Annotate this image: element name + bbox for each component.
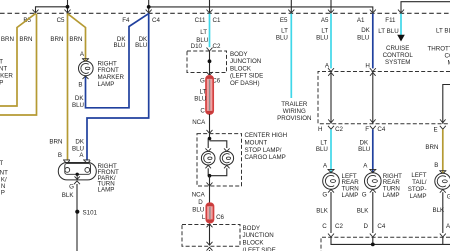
wire DK BLU F4 branch xyxy=(86,14,149,108)
svg-text:A: A xyxy=(79,152,84,159)
connector arrow left stop lamp top xyxy=(205,148,211,151)
connector arrow marker lamp top xyxy=(83,59,89,62)
wire BRN right branch of C5 to marker lamp xyxy=(68,14,86,62)
svg-text:D10: D10 xyxy=(191,43,203,50)
svg-text:BLU: BLU xyxy=(135,42,147,49)
wire trailer box pin A-H column xyxy=(330,72,332,124)
wire LT BLU F11 to cruise xyxy=(400,14,402,36)
svg-text:G: G xyxy=(322,192,327,199)
svg-text:C1: C1 xyxy=(213,17,221,24)
fuse element upper (red) xyxy=(206,76,213,114)
svg-text:MOUNT: MOUNT xyxy=(245,140,268,147)
connector arrow C5 xyxy=(65,10,71,13)
wire from left stop lamp bottom xyxy=(208,168,209,175)
lamp left rear turn xyxy=(323,173,340,190)
svg-text:LT: LT xyxy=(281,27,288,34)
wire bus1 to B5 xyxy=(36,7,68,13)
wire DK BLU A1 xyxy=(372,14,374,69)
wire top feeder stub E5 xyxy=(290,0,292,12)
wire BLK park/turn ground xyxy=(76,184,78,251)
connector arrow right stop lamp bottom xyxy=(224,165,230,168)
lamp right front marker: socket tick xyxy=(82,58,89,60)
svg-text:BLU: BLU xyxy=(192,206,204,213)
wire BRN main B5 xyxy=(0,14,37,115)
wire bus2 to A1 xyxy=(149,7,373,12)
svg-text:BRN: BRN xyxy=(1,36,14,43)
svg-text:BLK: BLK xyxy=(62,192,75,199)
node dot stop lamp box bottom xyxy=(208,174,212,178)
svg-text:A5: A5 xyxy=(321,17,329,24)
wire right rear into ground bus xyxy=(372,237,374,244)
svg-text:CONTROL: CONTROL xyxy=(383,52,414,59)
junction block 2 dashed box xyxy=(182,225,240,247)
svg-text:C6: C6 xyxy=(216,214,224,221)
wire BLK left rear ground xyxy=(330,192,332,233)
svg-text:C: C xyxy=(200,107,205,114)
connector arrow marker lamp bottom xyxy=(83,76,89,79)
wire BRN to left tail lamp xyxy=(442,129,444,173)
connector arrow left stop lamp bottom xyxy=(205,165,211,168)
connector arrow exiting stop lamp box xyxy=(207,183,213,186)
svg-text:F: F xyxy=(365,126,369,133)
connector arrow D into bottom box xyxy=(370,234,376,237)
connector arrow C into bottom box xyxy=(328,234,334,237)
wire stop lamp box to fuse2 xyxy=(209,186,211,203)
svg-text:BRN: BRN xyxy=(69,36,82,43)
wire LT BLU E5 trailer feed xyxy=(290,14,292,98)
svg-text:B: B xyxy=(434,162,438,169)
connector arrow F4/C4 xyxy=(146,10,152,13)
svg-text:PROVISION: PROVISION xyxy=(277,115,311,122)
connector arrow right stop lamp top xyxy=(224,148,230,151)
svg-text:SYSTEM: SYSTEM xyxy=(385,59,410,66)
dashed harness line top xyxy=(0,12,450,14)
svg-text:BLU: BLU xyxy=(194,96,206,103)
svg-text:A: A xyxy=(325,63,330,70)
svg-text:A1: A1 xyxy=(357,17,365,24)
wire LT BLU C1 xyxy=(209,14,211,48)
svg-text:DK: DK xyxy=(75,95,84,102)
connector arrow A1 xyxy=(370,10,376,13)
svg-text:LT BLU: LT BLU xyxy=(436,28,450,35)
svg-text:C11: C11 xyxy=(195,17,206,24)
connector arrow bottom of junction block 2 xyxy=(207,242,213,245)
svg-text:LAMP: LAMP xyxy=(342,192,359,199)
svg-text:BLOCK: BLOCK xyxy=(230,65,252,72)
wire park/turn dot to shell xyxy=(76,174,78,180)
wire LT BLU to left rear turn lamp xyxy=(330,129,332,172)
svg-text:CONTROL: CONTROL xyxy=(445,53,450,60)
svg-text:P: P xyxy=(0,80,3,87)
svg-text:BODY: BODY xyxy=(243,225,261,232)
rear ground dashed box xyxy=(321,237,450,251)
park/turn filament right xyxy=(85,168,90,173)
svg-text:BLU: BLU xyxy=(316,34,328,41)
wire from right stop lamp bottom xyxy=(210,168,227,175)
svg-text:OF DASH): OF DASH) xyxy=(230,80,260,87)
svg-text:C2: C2 xyxy=(335,223,343,230)
svg-text:STOP-: STOP- xyxy=(408,186,427,193)
svg-text:STOP LAMP/: STOP LAMP/ xyxy=(245,147,282,154)
svg-text:NCA: NCA xyxy=(192,191,206,198)
svg-text:LT: LT xyxy=(200,29,207,36)
svg-text:BODY: BODY xyxy=(230,51,248,58)
connector arrow left rear lamp bottom xyxy=(328,189,334,192)
arrowhead cruise control feed xyxy=(397,35,405,42)
wire BRN left branch of B5 xyxy=(0,14,36,106)
svg-text:G: G xyxy=(200,77,205,84)
wire top feeder stub A5 xyxy=(330,0,332,12)
svg-text:WIRING: WIRING xyxy=(283,108,306,115)
svg-text:LT: LT xyxy=(200,89,207,96)
connector arrow D10/C2 xyxy=(207,48,213,51)
lamp right front park/turn: socket ticks xyxy=(63,159,90,161)
svg-text:BLK: BLK xyxy=(432,207,445,214)
svg-text:BLK: BLK xyxy=(357,207,370,214)
connector arrow below junction block 2 xyxy=(207,247,213,250)
wire inside junction block 1 xyxy=(209,51,211,75)
wire stub bottom center xyxy=(209,250,211,251)
arrows inside trailer box left xyxy=(328,72,334,122)
trailer wiring dashed box xyxy=(318,72,450,124)
wire trailer box pin H-F column xyxy=(372,72,374,124)
node dot park/turn xyxy=(76,173,79,176)
svg-text:G: G xyxy=(362,192,367,199)
svg-text:L: L xyxy=(202,214,206,221)
svg-text:F4: F4 xyxy=(122,17,130,24)
node junction dot bus2/F4 xyxy=(147,5,151,9)
park/turn filament left xyxy=(65,168,70,173)
svg-text:B: B xyxy=(58,152,62,159)
svg-text:LAMP: LAMP xyxy=(98,186,115,193)
svg-text:LAMP: LAMP xyxy=(98,81,115,88)
wire DK BLU to right rear turn lamp xyxy=(372,129,374,172)
svg-text:A: A xyxy=(363,163,368,170)
svg-text:DK: DK xyxy=(75,138,84,145)
svg-text:BLU: BLU xyxy=(72,102,84,109)
svg-text:C5: C5 xyxy=(57,17,65,24)
node splice S101 xyxy=(75,210,79,214)
connector arrow tail lamp bottom xyxy=(440,190,446,193)
connector arrow below trailer box F/C4 xyxy=(370,126,376,129)
wire F11 bracket from right edge xyxy=(401,2,450,13)
node junction dot bus1/C5 xyxy=(66,5,70,9)
wire inside junction block 2 xyxy=(209,225,211,246)
svg-text:LAMP: LAMP xyxy=(410,193,427,200)
svg-text:D: D xyxy=(364,223,369,230)
connector arrow below trailer box H/C2 xyxy=(328,126,334,129)
connector arrow F11 xyxy=(398,10,404,13)
lamp right rear turn xyxy=(365,173,382,190)
svg-text:NT: NT xyxy=(0,66,7,73)
svg-text:G: G xyxy=(69,183,74,190)
svg-text:C2: C2 xyxy=(335,126,343,133)
connector arrow into junction block 2 xyxy=(207,224,213,227)
svg-text:(LEFT SIDE: (LEFT SIDE xyxy=(230,73,263,80)
lamp right rear turn: socket tick + arrow xyxy=(369,169,376,172)
svg-text:C2: C2 xyxy=(213,43,221,50)
svg-text:LT BLU: LT BLU xyxy=(378,28,398,35)
svg-text:LT: LT xyxy=(321,27,328,34)
svg-text:BLU: BLU xyxy=(357,34,369,41)
connector arrow right rear lamp bottom xyxy=(370,189,376,192)
svg-text:CARGO LAMP: CARGO LAMP xyxy=(245,154,286,161)
svg-text:C4: C4 xyxy=(377,223,385,230)
junction block 1 dashed box xyxy=(187,51,227,73)
svg-text:TRAILER: TRAILER xyxy=(281,101,308,108)
connector arrow into stop lamp box xyxy=(207,130,213,133)
wire to right stop lamp xyxy=(210,141,227,148)
lamp stop/cargo left xyxy=(201,151,215,165)
svg-text:P: P xyxy=(1,190,5,197)
svg-text:BLK: BLK xyxy=(316,207,329,214)
svg-text:E5: E5 xyxy=(280,17,288,24)
wire BLK tail lamp ground xyxy=(442,192,444,233)
lamp right front park/turn body xyxy=(58,163,96,180)
svg-text:THROTTLE: THROTTLE xyxy=(428,45,450,52)
wire LT BLU A5 xyxy=(330,14,332,69)
connector arrow A into bottom box xyxy=(440,234,446,237)
lamp left rear turn: socket tick + arrow xyxy=(327,169,334,172)
arrows inside trailer box right xyxy=(370,72,376,122)
svg-text:T: T xyxy=(0,160,3,167)
wire BRN main C5 to park/turn lamp xyxy=(67,14,69,161)
svg-text:TAIL/: TAIL/ xyxy=(412,179,427,186)
svg-text:JUNCTION: JUNCTION xyxy=(230,58,261,65)
connector arrow exiting junction block 1 xyxy=(207,72,213,75)
lamp left tail/stop xyxy=(435,173,450,189)
node dot ground bus xyxy=(371,243,375,247)
connector arrow park/turn ground xyxy=(74,181,80,184)
svg-text:C4: C4 xyxy=(377,126,385,133)
svg-text:LAMP: LAMP xyxy=(383,192,400,199)
svg-text:E: E xyxy=(433,127,437,134)
wire top feeder stub C11 xyxy=(209,0,211,12)
svg-text:A: A xyxy=(446,223,450,230)
svg-text:S101: S101 xyxy=(83,209,98,216)
wire DK BLU C4 main xyxy=(87,14,149,161)
wire exiting stop lamp box xyxy=(209,176,211,186)
connector arrow E5 xyxy=(288,10,294,13)
svg-text:BRN: BRN xyxy=(425,144,438,151)
wire tail lamp into ground bus xyxy=(442,237,444,244)
svg-text:JUNCTION: JUNCTION xyxy=(243,232,274,239)
connector arrow below trailer box E xyxy=(440,126,446,129)
svg-text:NCA: NCA xyxy=(192,119,206,126)
fuse element lower (red) xyxy=(206,203,213,222)
svg-text:BLU: BLU xyxy=(276,34,288,41)
connector arrow A into trailer box xyxy=(328,68,334,71)
stop/cargo lamp dashed box xyxy=(197,134,242,186)
svg-text:CRUISE: CRUISE xyxy=(386,45,409,52)
svg-text:BLU: BLU xyxy=(113,42,125,49)
wire fuse1 to stop lamp box xyxy=(209,114,211,133)
svg-text:A: A xyxy=(80,51,85,58)
wire top feeder stub F4/C4 xyxy=(148,0,150,12)
arrow inside trailer box at E xyxy=(440,119,446,122)
wire ground bus inside rear box xyxy=(331,237,450,244)
park/turn inner contact box xyxy=(65,164,91,175)
svg-text:DK: DK xyxy=(361,27,370,34)
connector arrow A5 xyxy=(328,10,334,13)
svg-text:(LEFT SIDE: (LEFT SIDE xyxy=(243,247,276,251)
wire top feeder stub C5 xyxy=(67,0,69,12)
svg-text:BLU: BLU xyxy=(358,146,370,153)
lamp stop/cargo right xyxy=(220,151,234,165)
svg-text:BRN: BRN xyxy=(49,138,62,145)
connector arrow C11/C1 xyxy=(207,10,213,13)
connector arrows park/turn top xyxy=(64,160,91,163)
svg-text:H: H xyxy=(365,63,369,70)
node dot inside junction block 1 xyxy=(208,59,212,63)
svg-text:CENTER HIGH: CENTER HIGH xyxy=(245,132,288,139)
wire trailer box L-branch to tail lamp xyxy=(443,85,450,124)
svg-text:BLU: BLU xyxy=(316,146,328,153)
svg-text:A: A xyxy=(323,163,328,170)
node dot stop lamp box xyxy=(208,137,212,141)
svg-text:LEFT: LEFT xyxy=(411,172,426,179)
wire to left stop lamp xyxy=(207,139,209,148)
lamp left tail/stop: socket tick + arrow xyxy=(439,171,446,174)
svg-text:B: B xyxy=(78,81,82,88)
svg-text:C: C xyxy=(322,223,327,230)
wire BLK right rear ground xyxy=(372,192,374,233)
connector arrow park/turn inside xyxy=(75,176,80,179)
svg-text:BRN: BRN xyxy=(50,36,63,43)
svg-text:D: D xyxy=(198,199,203,206)
connector arrow H into trailer box xyxy=(370,68,376,71)
wire inside stop lamp box top xyxy=(209,134,211,139)
lamp right front marker xyxy=(79,61,94,76)
svg-text:F11: F11 xyxy=(385,17,396,24)
svg-text:C4: C4 xyxy=(152,17,160,24)
svg-text:BLOCK: BLOCK xyxy=(243,240,265,247)
svg-text:BRN: BRN xyxy=(19,36,32,43)
svg-text:H: H xyxy=(318,126,322,133)
connector arrow B5 xyxy=(33,10,39,13)
svg-text:NT: NT xyxy=(0,169,8,176)
